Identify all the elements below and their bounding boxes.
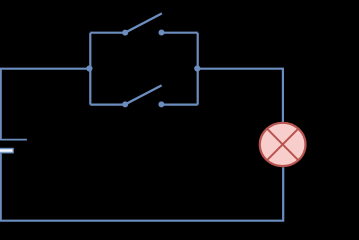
switch S2 pivot contact xyxy=(122,101,128,107)
wire: left branch vertical of parallel section xyxy=(89,33,91,105)
wire: battery negative terminal down, along bottom, up to lamp bottom xyxy=(1,153,284,220)
lamp L1 cross stroke 1 xyxy=(267,129,298,160)
node: left junction xyxy=(86,65,92,71)
wire: right branch vertical of parallel section xyxy=(197,33,199,105)
lamp L1 body xyxy=(260,123,306,166)
wire: top path right lead from switch S1 xyxy=(162,32,198,34)
switch S1 fixed contact xyxy=(159,30,165,36)
switch S2 fixed contact xyxy=(158,101,164,107)
switch S1 blade (open) xyxy=(125,13,162,32)
wire: top path left lead to switch S1 xyxy=(90,32,125,34)
battery B1 long thin positive plate xyxy=(0,139,27,141)
switch S2 blade (open) xyxy=(125,85,161,104)
wire: left junction to battery positive terminal (left edge, down) xyxy=(1,69,91,140)
switch S1 pivot contact xyxy=(122,30,128,36)
wire: bottom path right lead from switch S2 xyxy=(161,103,197,105)
wire: bottom path left lead to switch S2 xyxy=(90,103,125,105)
wire: right junction right and down to lamp top xyxy=(198,69,283,123)
battery B1 short thick negative plate xyxy=(0,148,13,152)
lamp L1 cross stroke 2 xyxy=(267,129,298,160)
node: right junction xyxy=(194,65,200,71)
